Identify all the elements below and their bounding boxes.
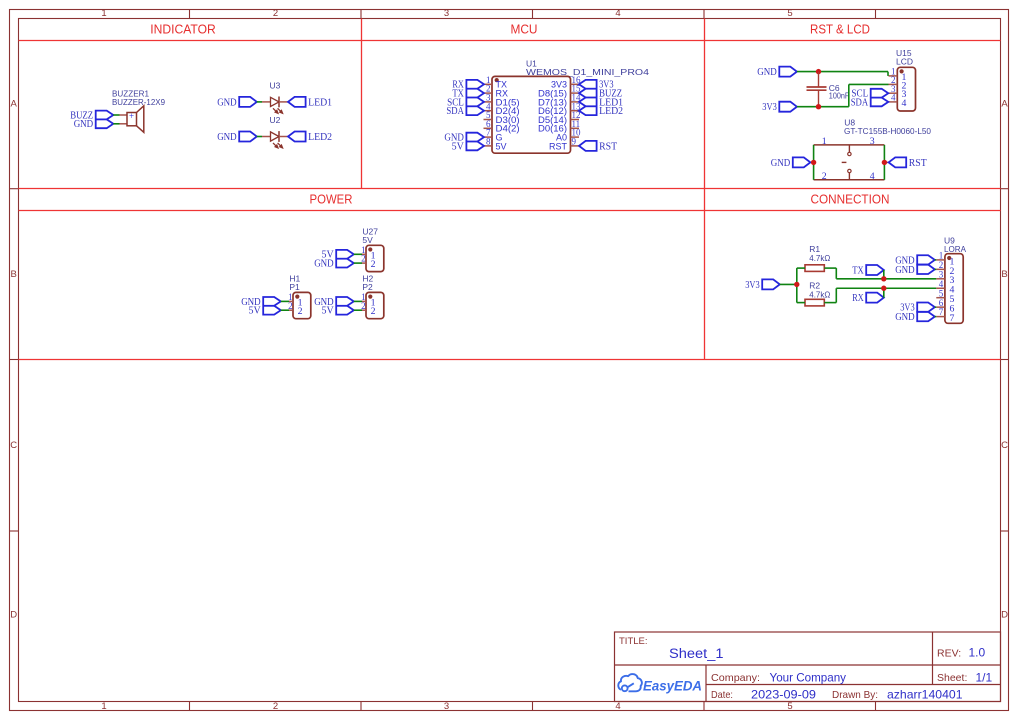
- svg-text:Date:: Date:: [711, 689, 733, 701]
- svg-text:GT-TC155B-H0060-L50: GT-TC155B-H0060-L50: [844, 126, 931, 136]
- svg-text:SDA: SDA: [446, 106, 464, 117]
- svg-text:1: 1: [822, 136, 827, 147]
- svg-text:+: +: [129, 111, 134, 121]
- svg-text:4: 4: [891, 93, 896, 103]
- svg-text:2: 2: [822, 171, 827, 182]
- svg-text:RST & LCD: RST & LCD: [810, 22, 870, 37]
- svg-text:GND: GND: [74, 119, 94, 130]
- svg-text:D: D: [10, 609, 17, 620]
- svg-text:4: 4: [615, 701, 620, 712]
- svg-text:LORA: LORA: [944, 244, 966, 254]
- svg-text:5V: 5V: [496, 141, 507, 151]
- svg-text:GND: GND: [895, 265, 915, 276]
- svg-text:GND: GND: [217, 132, 237, 143]
- svg-text:4: 4: [902, 98, 907, 109]
- svg-text:5: 5: [787, 701, 792, 712]
- svg-text:100nF: 100nF: [829, 90, 850, 100]
- svg-text:Sheet_1: Sheet_1: [669, 646, 724, 661]
- svg-text:SDA: SDA: [851, 97, 869, 108]
- svg-text:7: 7: [939, 307, 944, 317]
- svg-text:P2: P2: [362, 282, 373, 292]
- svg-text:3V3: 3V3: [745, 280, 760, 291]
- svg-text:2: 2: [273, 8, 278, 19]
- svg-text:GND: GND: [771, 158, 791, 169]
- svg-text:RST: RST: [599, 141, 617, 152]
- svg-text:GND: GND: [217, 97, 237, 108]
- svg-text:Your Company: Your Company: [770, 670, 847, 684]
- svg-text:3V3: 3V3: [762, 102, 777, 113]
- svg-text:RST: RST: [909, 158, 927, 169]
- svg-text:5V: 5V: [362, 235, 373, 245]
- svg-text:U2: U2: [270, 115, 281, 125]
- svg-text:GND: GND: [757, 67, 777, 78]
- svg-text:5V: 5V: [321, 306, 334, 317]
- svg-text:TX: TX: [852, 265, 864, 276]
- svg-text:MCU: MCU: [511, 22, 538, 37]
- svg-text:3: 3: [444, 8, 449, 19]
- svg-text:1: 1: [101, 701, 106, 712]
- svg-text:LED2: LED2: [599, 106, 623, 117]
- svg-text:U3: U3: [270, 80, 281, 90]
- svg-text:8: 8: [486, 137, 491, 147]
- svg-text:TITLE:: TITLE:: [619, 636, 648, 647]
- svg-text:4.7kΩ: 4.7kΩ: [809, 290, 830, 300]
- svg-text:5V: 5V: [452, 141, 465, 152]
- svg-text:2: 2: [298, 306, 303, 317]
- svg-text:2: 2: [361, 301, 366, 311]
- svg-text:D: D: [1001, 609, 1008, 620]
- svg-text:WEMOS_D1_MINI_PRO4: WEMOS_D1_MINI_PRO4: [526, 67, 649, 77]
- svg-text:1: 1: [101, 8, 106, 19]
- svg-text:POWER: POWER: [310, 192, 353, 207]
- svg-text:INDICATOR: INDICATOR: [150, 22, 216, 37]
- svg-text:LED1: LED1: [308, 97, 332, 108]
- svg-text:1.0: 1.0: [969, 646, 986, 660]
- svg-text:Company:: Company:: [711, 672, 760, 684]
- svg-text:A: A: [11, 98, 18, 109]
- svg-text:C: C: [1001, 440, 1008, 451]
- svg-text:7: 7: [950, 313, 955, 324]
- svg-text:4: 4: [870, 171, 875, 182]
- svg-text:BUZZER-12X9: BUZZER-12X9: [112, 97, 165, 107]
- svg-text:CONNECTION: CONNECTION: [811, 192, 890, 207]
- svg-text:3: 3: [870, 136, 875, 147]
- svg-text:P1: P1: [289, 282, 300, 292]
- svg-text:4: 4: [615, 8, 620, 19]
- svg-text:4.7kΩ: 4.7kΩ: [809, 253, 830, 263]
- svg-text:9: 9: [572, 137, 577, 147]
- svg-text:C: C: [10, 440, 17, 451]
- svg-text:LCD: LCD: [896, 57, 913, 67]
- svg-text:B: B: [11, 269, 17, 280]
- svg-text:B: B: [1001, 269, 1007, 280]
- svg-text:GND: GND: [895, 312, 915, 323]
- svg-text:5: 5: [787, 8, 792, 19]
- svg-text:3: 3: [444, 701, 449, 712]
- svg-text:2: 2: [288, 301, 293, 311]
- svg-text:Sheet:: Sheet:: [937, 672, 967, 684]
- svg-text:RX: RX: [852, 293, 864, 304]
- svg-text:EasyEDA: EasyEDA: [643, 679, 702, 694]
- svg-text:Drawn By:: Drawn By:: [832, 689, 878, 701]
- svg-text:2: 2: [361, 254, 366, 264]
- svg-text:REV:: REV:: [937, 647, 961, 659]
- svg-text:5V: 5V: [248, 306, 261, 317]
- svg-text:azharr140401: azharr140401: [887, 687, 963, 701]
- svg-text:GND: GND: [314, 259, 334, 270]
- svg-text:1/1: 1/1: [976, 670, 993, 684]
- svg-text:RST: RST: [549, 141, 568, 151]
- svg-text:2: 2: [371, 259, 376, 270]
- svg-text:2: 2: [273, 701, 278, 712]
- svg-text:LED2: LED2: [308, 132, 332, 143]
- svg-text:A: A: [1001, 98, 1008, 109]
- svg-text:2: 2: [371, 306, 376, 317]
- svg-text:2023-09-09: 2023-09-09: [751, 687, 816, 701]
